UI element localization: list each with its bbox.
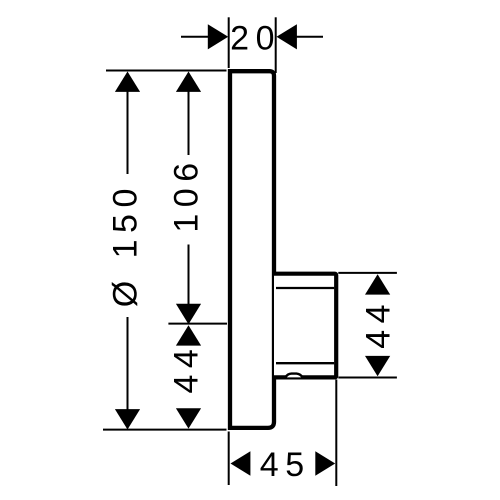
svg-text:44: 44 xyxy=(360,298,398,349)
svg-text:20: 20 xyxy=(230,20,281,58)
svg-text:106: 106 xyxy=(168,156,206,232)
svg-text:44: 44 xyxy=(168,343,206,394)
svg-text:45: 45 xyxy=(260,446,311,484)
svg-text:Ø 150: Ø 150 xyxy=(107,182,145,307)
